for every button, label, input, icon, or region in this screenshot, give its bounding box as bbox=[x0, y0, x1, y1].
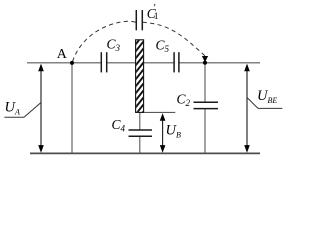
svg-text:C2: C2 bbox=[177, 92, 191, 109]
svg-text:UB: UB bbox=[166, 123, 181, 140]
svg-text:C5: C5 bbox=[156, 38, 170, 55]
svg-text:UBE: UBE bbox=[257, 88, 277, 105]
svg-text:1: 1 bbox=[154, 12, 159, 22]
svg-text:C4: C4 bbox=[112, 117, 126, 134]
svg-text:C3: C3 bbox=[107, 37, 121, 54]
svg-text:A: A bbox=[57, 47, 68, 62]
svg-text:UA: UA bbox=[5, 100, 20, 117]
